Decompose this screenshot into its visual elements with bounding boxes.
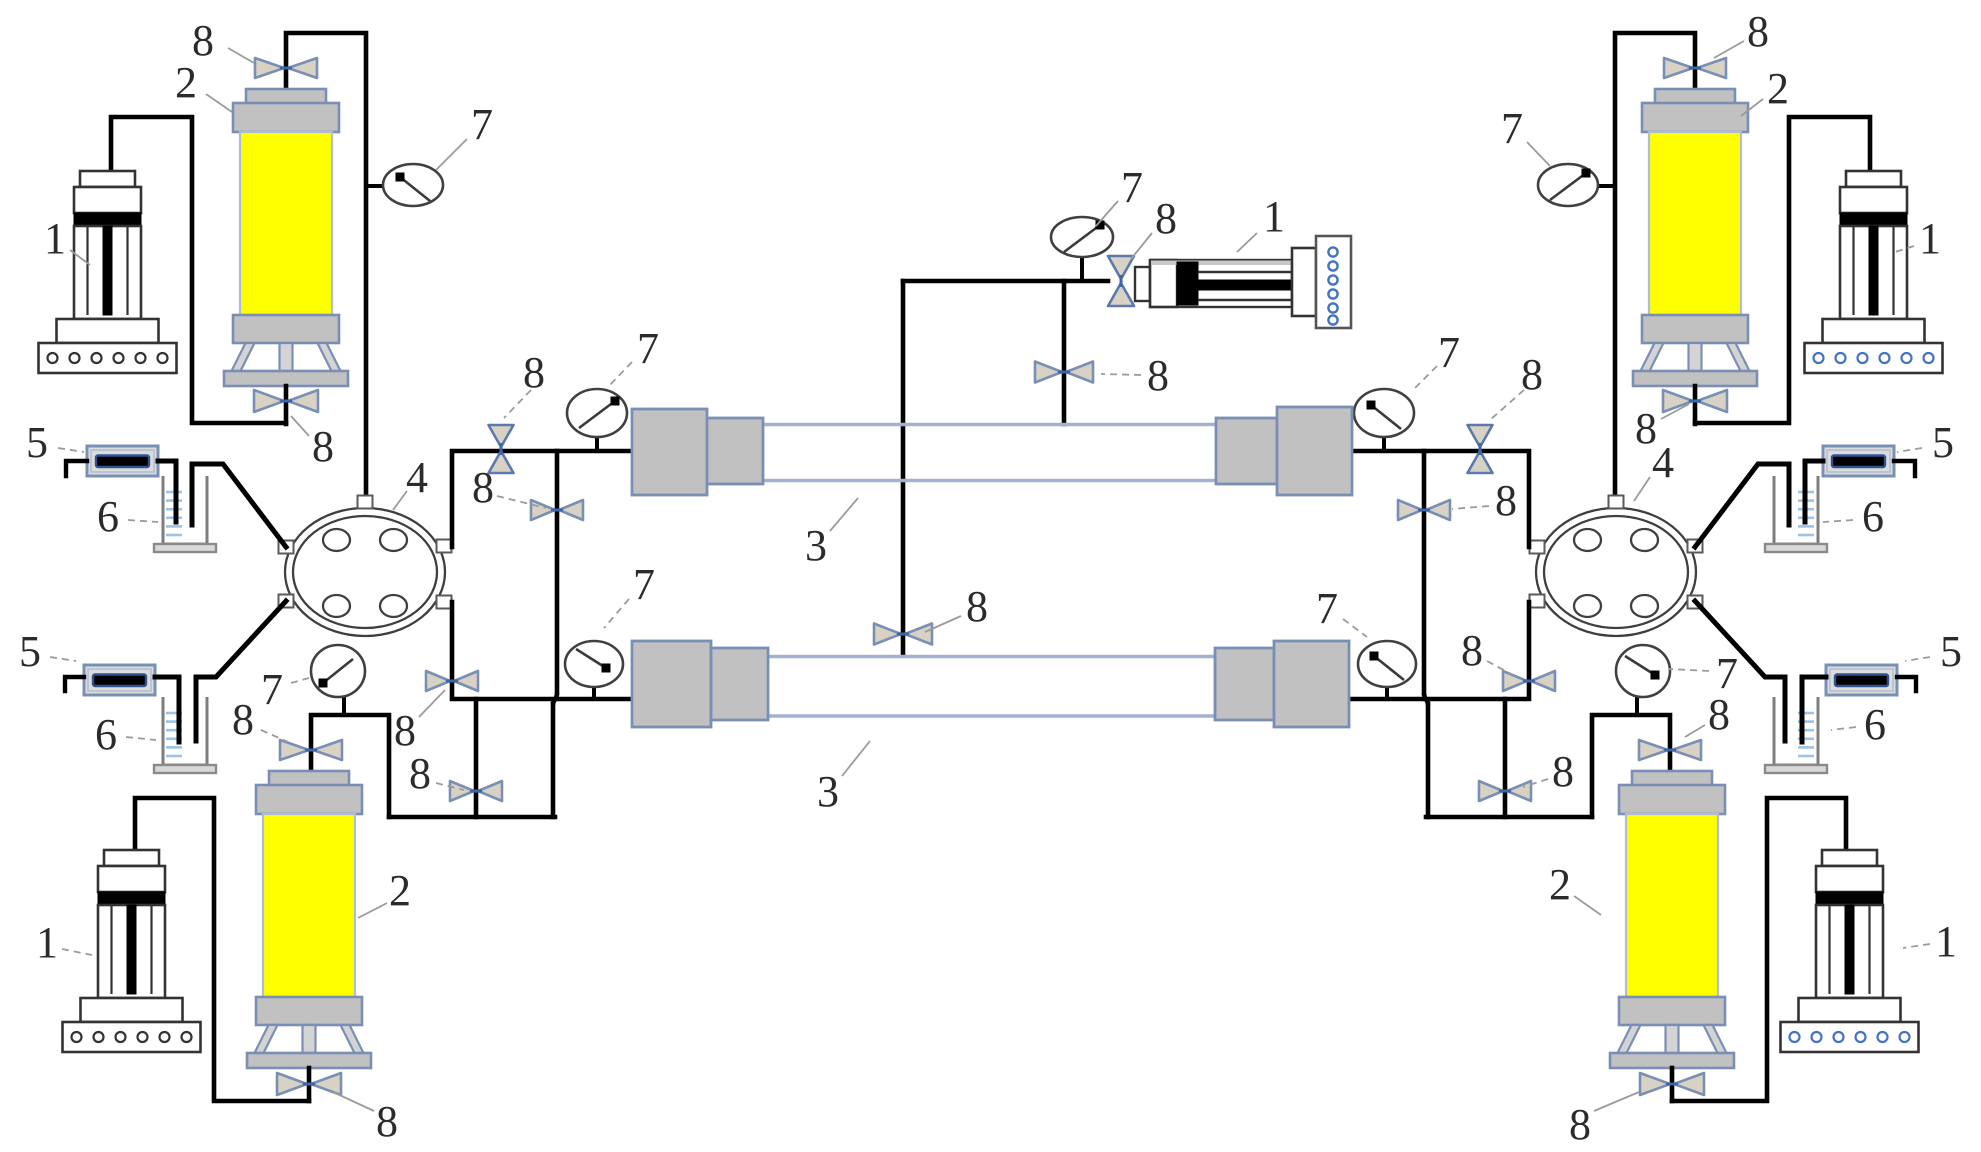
- accumulator 2 (top left): [246, 89, 326, 104]
- wire: valve-4 lower port to bottom core holder (right): [1351, 602, 1529, 699]
- syringe pump 1 (top right): [1846, 171, 1901, 187]
- core holder 3 (top) left clamp: [632, 409, 707, 495]
- svg-text:4: 4: [1652, 438, 1674, 487]
- accumulator 2 (top right): [1655, 89, 1735, 104]
- wire: bottom manifold (right): [1426, 815, 1592, 820]
- wire: valve-4 to lower separator (left): [196, 601, 286, 741]
- wire: valve-4 to upper separator (right): [1695, 464, 1789, 547]
- wire: accumulator bottom stem (top right): [1693, 386, 1698, 424]
- flow meter 5 (lower right): [1826, 665, 1897, 695]
- wire: bypass line from top branch down (right): [1422, 451, 1427, 693]
- svg-text:6: 6: [97, 492, 119, 541]
- svg-text:8: 8: [1521, 350, 1543, 399]
- accumulator 2 (bottom left): [269, 771, 349, 786]
- wire: manifold down to bottom core holder: [901, 281, 906, 655]
- wire: top manifold horizontal: [903, 279, 1108, 284]
- svg-text:5: 5: [1932, 418, 1954, 467]
- svg-text:6: 6: [1864, 700, 1886, 749]
- pressure gauge 7 (bottom left accumulator line): [311, 645, 365, 697]
- syringe pump 1 (bottom right): [1822, 850, 1877, 866]
- svg-text:4: 4: [406, 453, 428, 502]
- svg-text:3: 3: [817, 767, 839, 816]
- pressure gauge 7 (injection pump): [1051, 217, 1113, 257]
- wire: pump-1 outlet to accumulator bottom (bottom left): [135, 798, 309, 1101]
- svg-text:8: 8: [1495, 476, 1517, 525]
- valve 8 (bottom left accumulator bottom): [277, 1073, 341, 1095]
- core holder 3 (top) right clamp: [1216, 418, 1277, 484]
- 4-port valve 4 (left): [285, 508, 445, 636]
- wire: drain line with valve (right): [1503, 699, 1508, 817]
- valve 8 (on vertical to bottom holder, right): [1503, 671, 1555, 691]
- svg-text:8: 8: [1708, 690, 1730, 739]
- valve 8 (top left accumulator top): [255, 58, 317, 78]
- flow meter 5 (lower left): [84, 665, 155, 695]
- svg-text:8: 8: [312, 422, 334, 471]
- valve 8 (top holder inlet, left): [489, 425, 514, 473]
- wire: gauge stem (top holder right): [1382, 438, 1386, 451]
- valve 8 (bypass line, left): [531, 500, 583, 520]
- valve 8 (injection pump outlet): [1108, 256, 1134, 306]
- svg-text:1: 1: [1919, 214, 1941, 263]
- pressure gauge 7 (bottom holder left): [565, 641, 623, 687]
- svg-text:8: 8: [1552, 747, 1574, 796]
- svg-text:7: 7: [471, 100, 493, 149]
- wire: accumulator bottom stem (top left): [284, 386, 289, 424]
- valve 8 (top left accumulator bottom): [254, 390, 318, 412]
- svg-text:8: 8: [1569, 1100, 1591, 1149]
- valve 8 (bottom right accumulator top): [1639, 740, 1701, 760]
- valve 8 (top right accumulator top): [1664, 58, 1726, 78]
- svg-text:8: 8: [232, 695, 254, 744]
- wire: flow meter stubs (upper left): [66, 461, 87, 476]
- svg-text:2: 2: [175, 58, 197, 107]
- labels and leader lines: [228, 48, 254, 63]
- pressure gauge 7 (top holder right): [1354, 389, 1414, 437]
- wire: flow meter stubs (lower left): [65, 677, 84, 691]
- svg-text:2: 2: [389, 866, 411, 915]
- core holder 3 (top) tube: [763, 423, 1216, 426]
- wire: bottom accumulator stem (right): [1670, 1068, 1675, 1101]
- valve 8 (on vertical to bottom holder, left): [426, 671, 478, 691]
- wire: gauge stem (bottom holder left): [592, 688, 596, 699]
- svg-text:1: 1: [44, 214, 66, 263]
- core holder 3 (bottom) left clamp: [632, 641, 711, 727]
- valve 8 (top right accumulator bottom): [1663, 390, 1727, 412]
- wire: valve-4 lower port to bottom core holder (left): [452, 602, 630, 699]
- svg-text:5: 5: [26, 418, 48, 467]
- accumulator 2 (bottom right): [1632, 771, 1712, 786]
- wire: accumulator-2 top to 4-port valve (top left): [286, 33, 366, 498]
- svg-text:2: 2: [1767, 64, 1789, 113]
- wire: bypass line from top branch down (left): [555, 451, 560, 693]
- wire: valve-4 upper port to top core holder (right): [1352, 451, 1529, 547]
- 4-port valve 4 (right): [1536, 508, 1696, 636]
- svg-text:1: 1: [1935, 917, 1957, 966]
- wire: accumulator-2 top to 4-port valve (top right): [1615, 33, 1695, 498]
- graduated cylinder 6 (lower left): [163, 697, 207, 765]
- wire: bottom accumulator stem (left): [307, 1068, 312, 1101]
- valve 8 (bypass line, right): [1398, 500, 1450, 520]
- wire: pump-1 outlet to accumulator-2 bottom (top left): [111, 117, 286, 423]
- svg-text:8: 8: [394, 706, 416, 755]
- svg-text:7: 7: [637, 324, 659, 373]
- svg-text:8: 8: [1147, 351, 1169, 400]
- svg-text:8: 8: [376, 1097, 398, 1146]
- valve 8 (bottom right accumulator bottom): [1640, 1073, 1704, 1095]
- pressure gauge 7 (bottom holder right): [1358, 641, 1416, 687]
- svg-text:5: 5: [1940, 627, 1962, 676]
- svg-text:8: 8: [1155, 194, 1177, 243]
- core holder 3 (bottom) tube: [768, 655, 1215, 658]
- svg-text:2: 2: [1549, 860, 1571, 909]
- pressure gauge 7 (top left accumulator line): [383, 164, 443, 206]
- graduated cylinder 6 (upper right): [1774, 476, 1818, 544]
- wire: valve-4 upper port to top core holder (left): [452, 451, 631, 547]
- svg-text:8: 8: [1747, 7, 1769, 56]
- wire: flow meter stubs (lower right): [1897, 677, 1916, 691]
- wire: gauge stem (injection pump): [1080, 258, 1084, 281]
- wire: bottom manifold (left): [389, 815, 555, 820]
- svg-text:6: 6: [95, 710, 117, 759]
- wire: valve-4 to upper separator (left): [192, 464, 286, 547]
- valve 8 (injection to top holder): [1035, 362, 1093, 383]
- wire: gauge stub (top left): [366, 184, 385, 188]
- svg-text:8: 8: [1461, 626, 1483, 675]
- svg-text:7: 7: [1316, 584, 1338, 633]
- pressure gauge 7 (bottom right accumulator line): [1616, 645, 1670, 697]
- svg-text:8: 8: [966, 582, 988, 631]
- svg-text:7: 7: [1121, 163, 1143, 212]
- wire: valve-4 to lower separator (right): [1695, 601, 1785, 741]
- svg-text:8: 8: [523, 348, 545, 397]
- valve 8 (drain line, left): [450, 781, 502, 801]
- svg-text:5: 5: [19, 627, 41, 676]
- svg-text:7: 7: [1501, 104, 1523, 153]
- wire: gauge stub (top right): [1596, 184, 1615, 188]
- svg-text:7: 7: [633, 560, 655, 609]
- wire: gauge stem (top holder left): [595, 438, 599, 451]
- wire: gauge stem (bottom right accumulator): [1635, 696, 1639, 715]
- horizontal syringe pump 1 (injection): [1135, 267, 1150, 301]
- wire: manifold down to top core holder: [1062, 281, 1067, 424]
- svg-text:8: 8: [472, 463, 494, 512]
- core holder 3 (bottom) right clamp: [1215, 648, 1274, 720]
- wire: drain line with valve (left): [474, 699, 479, 817]
- syringe pump 1 (bottom left): [104, 850, 159, 866]
- wire: flow meter stubs (upper right): [1894, 461, 1915, 476]
- svg-text:1: 1: [1263, 192, 1285, 241]
- valve 8 (injection to bottom holder): [874, 624, 932, 645]
- flow meter 5 (upper left): [87, 446, 158, 476]
- pressure gauge 7 (top holder left): [567, 389, 627, 437]
- wire: gauge stem (bottom holder right): [1385, 688, 1389, 699]
- wire: pump-1 outlet to accumulator bottom (bottom right): [1672, 798, 1846, 1101]
- syringe pump 1 (top left): [80, 171, 135, 187]
- graduated cylinder 6 (upper left): [163, 476, 207, 544]
- valve 8 (top holder inlet, right): [1468, 425, 1493, 473]
- valve 8 (drain line, right): [1479, 781, 1531, 801]
- svg-text:1: 1: [36, 918, 58, 967]
- pressure gauge 7 (top right accumulator line): [1538, 164, 1598, 206]
- svg-text:7: 7: [1438, 328, 1460, 377]
- svg-text:6: 6: [1862, 492, 1884, 541]
- valve 8 (bottom left accumulator top): [280, 740, 342, 760]
- svg-text:3: 3: [805, 521, 827, 570]
- svg-text:8: 8: [409, 749, 431, 798]
- svg-text:7: 7: [261, 665, 283, 714]
- flow meter 5 (upper right): [1823, 446, 1894, 476]
- graduated cylinder 6 (lower right): [1774, 697, 1818, 765]
- wire: gauge stem (bottom left accumulator): [342, 696, 346, 715]
- wire: pump-1 outlet to accumulator-2 bottom (top right): [1695, 117, 1870, 423]
